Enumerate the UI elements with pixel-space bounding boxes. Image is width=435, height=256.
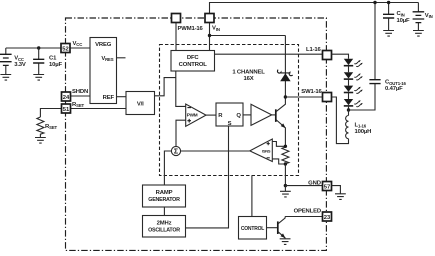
svg-text:SHDN: SHDN [72,89,88,95]
node sense bottom junction [284,162,287,165]
svg-text:16X: 16X [243,76,253,82]
svg-text:VIN: VIN [425,13,433,19]
ground at gnd node [280,186,291,197]
pin VIN [205,14,214,23]
svg-text:10µF: 10µF [397,18,410,24]
ground below RSET [35,138,46,144]
svg-text:L1-16: L1-16 [355,122,367,128]
ground below Q2 emitter [280,239,291,245]
wire Q to driver [243,114,251,116]
LED D5 [344,99,363,110]
svg-text:CIN: CIN [397,11,405,17]
wire sigma to ramp generator [164,151,171,185]
svg-text:VCC: VCC [14,56,24,62]
wire ISNS out to sigma [181,150,250,152]
label VCC 3.3V [14,56,26,69]
svg-text:RSET: RSET [72,102,85,108]
wire PWM out to R [206,114,216,116]
label CIN 10uF [397,11,410,24]
wire SHDN pin to VREG [71,95,91,97]
svg-text:COUT1-16: COUT1-16 [385,80,406,86]
pin 23 [323,212,332,221]
svg-text:57: 57 [324,185,331,191]
block VREG [90,38,117,104]
svg-text:SW1-16: SW1-16 [301,89,322,95]
wire ISNS minus input [272,159,285,164]
wire ISNS plus input [272,142,285,147]
wire SW node to pin [285,96,322,98]
svg-text:3.3V: 3.3V [14,62,26,68]
ground below C1 [33,75,44,81]
label 1 CHANNEL 16X [232,70,265,83]
pin 52 [61,44,70,53]
svg-text:ISNS: ISNS [262,149,271,154]
svg-text:2MHz: 2MHz [157,220,172,226]
battery VCC [0,48,12,75]
wire DFC to L1-16 pin [215,53,323,55]
LED D4 [344,86,363,99]
wire pin 57 to ground [332,186,341,194]
svg-text:VCC: VCC [73,41,83,47]
LED D2 [344,59,363,72]
svg-text:23: 23 [324,215,331,221]
svg-text:100µH: 100µH [355,129,372,135]
wire sense to gnd node [284,164,286,186]
battery VIN [413,3,425,31]
svg-text:DFC: DFC [187,55,200,61]
chip outer boundary (dash-dot) [66,18,327,250]
schottky diode D1 [277,70,292,81]
label C1 10uF [49,56,62,69]
block RAMP GENERATOR [143,185,186,207]
svg-text:V/I: V/I [137,102,144,108]
svg-text:52: 52 [62,47,69,53]
wire VCC to pin 52 [6,47,90,49]
svg-text:RAMP: RAMP [156,190,173,196]
svg-text:1 CHANNEL: 1 CHANNEL [232,70,265,76]
wire REF to V/I [117,96,127,98]
label COUT1-16 0.47uF [385,80,406,93]
node LED bottom junction [347,108,350,111]
inductor L1-16 [332,97,349,144]
svg-text:VREG: VREG [95,42,112,48]
svg-text:L1-16: L1-16 [306,47,322,53]
wire ramp to oscillator [163,207,165,216]
node gnd junction [284,184,287,187]
svg-text:PWM1-16: PWM1-16 [178,26,204,32]
svg-text:51: 51 [63,107,70,113]
svg-text:24: 24 [63,95,70,101]
ground right of pin 57 [335,194,346,200]
svg-text:REF: REF [103,95,115,101]
pin PWM1-16 [172,14,181,23]
pin SW1-16 [323,93,332,102]
node SW junction [284,95,287,98]
svg-text:OPENLED: OPENLED [294,209,321,215]
svg-text:Σ: Σ [174,149,178,156]
wire Q2 collector to pin 23 [285,216,322,218]
ground below CIN [383,31,394,37]
LED D3 [344,72,363,85]
svg-text:CONTROL: CONTROL [241,226,264,232]
svg-text:0.47µF: 0.47µF [385,86,403,92]
svg-text:PWM: PWM [187,113,198,118]
capacitor CIN [383,3,394,31]
svg-text:10µF: 10µF [49,62,62,68]
block V/I [126,92,155,115]
wire RSET pin to V/I [71,108,127,110]
node C1 junction [37,46,40,49]
pin 51 [62,104,71,113]
svg-text:OSCILLATOR: OSCILLATOR [148,227,180,233]
node COUT top junction [373,1,376,4]
svg-text:CONTROL: CONTROL [179,62,208,68]
block 2MHz OSCILLATOR [143,216,186,238]
svg-text:GND: GND [308,181,321,187]
svg-text:C1: C1 [49,56,57,62]
channel inner boundary (dashed) [160,45,299,176]
wire driver to Q1 base [272,114,276,116]
wire top VIN rail [210,3,419,14]
ground below VIN battery [413,31,424,37]
buffer driver [251,104,272,125]
pin 24 [62,92,71,101]
wire oscillator to S input [186,126,229,228]
svg-text:RSET: RSET [45,124,58,130]
block DFC CONTROL [171,51,215,72]
transistor Q1 [276,97,286,146]
svg-text:Q: Q [236,113,241,119]
wire channel box to control [251,176,253,217]
svg-text:GENERATOR: GENERATOR [148,197,180,203]
wire PWM pin to DFC [175,23,177,51]
wire gnd node to pin 57 [285,185,322,187]
node VIN internal junction [208,34,211,37]
flip-flop RS latch [216,103,243,127]
wire VRES stub [117,57,126,59]
capacitor COUT1-16 [349,3,381,111]
wire control to Q2 base [267,227,278,229]
op-amp PWM comparator [186,104,206,126]
wire sigma to PWM plus [176,120,186,146]
pin 57 [323,182,332,191]
wire L1-16 pin to LED string [332,54,349,59]
summing node sigma [171,146,180,155]
wire RSET pin to resistor [40,109,61,118]
op-amp ISNS [250,139,272,162]
wire VIN internal branch [210,23,286,51]
block CONTROL [239,217,267,240]
resistor RSET [37,117,44,138]
wire V/I out to DFC and PWM minus [155,71,186,106]
wire schottky/SW vertical [284,36,286,98]
ground below VCC battery [0,75,11,81]
label L1-16 100uH [355,122,372,135]
svg-text:VRES: VRES [101,56,113,62]
pin L1-16 [323,51,332,60]
capacitor C1 [33,48,44,75]
svg-text:VIN: VIN [212,26,220,32]
transistor Q2 openled [278,217,286,239]
resistor sense [282,146,289,164]
node emitter junction [284,145,287,148]
node CIN top junction [387,1,390,4]
